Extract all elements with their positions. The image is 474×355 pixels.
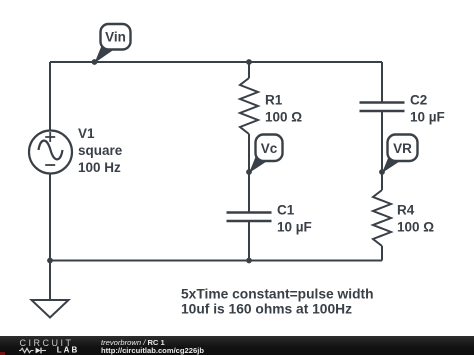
wire left rail upper (49, 62, 51, 131)
svg-text:C1: C1 (277, 203, 295, 218)
footer title text (101, 338, 165, 347)
footer url text (101, 346, 204, 355)
wire right branch top (381, 62, 383, 102)
svg-text:square: square (78, 143, 123, 158)
red corner mark (0, 352, 5, 355)
svg-text:LAB: LAB (57, 345, 79, 354)
node label Vin pointer (95, 44, 116, 64)
resistor R4 (373, 190, 391, 246)
CircuitLab logo (0, 336, 95, 355)
svg-text:R1: R1 (265, 93, 283, 108)
junction dot top rail / R1 branch (246, 59, 252, 65)
svg-text:Vin: Vin (105, 30, 126, 45)
wire right branch bottom (381, 246, 383, 261)
node label Vc (256, 135, 283, 162)
capacitor C2 (360, 103, 405, 112)
svg-text:C2: C2 (410, 93, 427, 108)
wire middle branch mid (node Vc) (248, 134, 250, 212)
svg-text:10 µF: 10 µF (410, 110, 445, 125)
wire top rail Vin node (50, 61, 382, 63)
svg-text:100 Ω: 100 Ω (397, 220, 434, 235)
svg-text:R4: R4 (397, 203, 415, 218)
wire middle branch top (248, 62, 250, 78)
wire middle branch bottom (248, 222, 250, 261)
node label Vin (101, 24, 131, 50)
junction dot ground (47, 258, 53, 264)
ground symbol (32, 300, 69, 318)
svg-text:100 Ω: 100 Ω (265, 110, 302, 125)
junction dot bottom rail / C1 branch (246, 258, 252, 264)
capacitor C1 (227, 213, 272, 222)
svg-text:Vc: Vc (261, 141, 278, 156)
junction dot node VR (379, 169, 385, 175)
svg-text:100 Hz: 100 Hz (78, 160, 121, 175)
footer bar (0, 336, 474, 355)
node label Vc pointer (249, 155, 270, 174)
junction dot node Vc (246, 169, 252, 175)
svg-text:V1: V1 (78, 126, 95, 141)
svg-text:VR: VR (393, 141, 412, 156)
junction dot Vin pointer (92, 59, 98, 65)
wire left rail lower (49, 174, 51, 261)
wire ground stub (49, 261, 51, 301)
resistor R1 (240, 78, 258, 134)
node label VR pointer (382, 155, 403, 174)
node label VR (388, 135, 418, 162)
svg-text:5xTime constant=pulse width: 5xTime constant=pulse width (181, 287, 374, 302)
V1 minus sign (45, 164, 55, 166)
V1 plus sign (45, 132, 55, 142)
svg-text:10uf is 160 ohms at 100Hz: 10uf is 160 ohms at 100Hz (181, 302, 352, 317)
svg-text:10 µF: 10 µF (277, 220, 312, 235)
voltage source V1 (29, 131, 72, 174)
wire right branch mid (node VR) (381, 112, 383, 190)
wire bottom rail ground net (50, 260, 382, 262)
